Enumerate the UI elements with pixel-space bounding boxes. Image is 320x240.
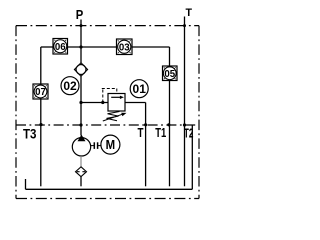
svg-text:01: 01: [133, 82, 147, 96]
svg-text:03: 03: [119, 42, 130, 53]
svg-text:M: M: [106, 138, 116, 152]
svg-text:06: 06: [55, 42, 66, 53]
svg-text:P: P: [76, 8, 84, 22]
svg-text:T2: T2: [184, 127, 194, 141]
svg-text:02: 02: [63, 79, 77, 93]
svg-text:T1: T1: [155, 126, 166, 140]
svg-text:T: T: [186, 7, 193, 19]
svg-text:T: T: [138, 126, 144, 140]
svg-text:07: 07: [35, 87, 46, 98]
svg-text:T3: T3: [23, 127, 37, 142]
svg-text:05: 05: [164, 69, 175, 80]
